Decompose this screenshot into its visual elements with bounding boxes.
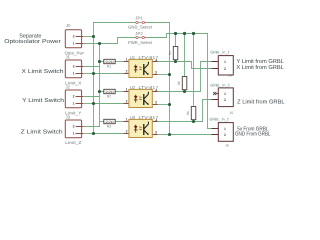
node rail B / J0 pin1 JP2 branch bbox=[98, 42, 101, 45]
LED D of U3 bbox=[135, 125, 137, 133]
jumper JP1 GND_Select bbox=[128, 16, 153, 30]
node Y out / R5 bbox=[183, 90, 186, 93]
svg-text:2: 2 bbox=[126, 100, 128, 104]
wire JP1 pad bridge bbox=[136, 22, 145, 24]
wire R3 to U3 pin1 bbox=[115, 121, 123, 123]
wire U2 pin2 row bbox=[94, 103, 124, 105]
wire Z output U3 pin4 riser to GRBL_In_3 pin2 bbox=[158, 100, 212, 122]
node rail A / J2 pin1 bbox=[92, 102, 95, 105]
svg-text:1: 1 bbox=[73, 102, 75, 106]
svg-text:GRBL_In_3: GRBL_In_3 bbox=[210, 82, 229, 87]
node 5v bus / R4 drop bbox=[174, 32, 177, 35]
resistor R3 220 bbox=[104, 119, 115, 128]
svg-text:220: 220 bbox=[105, 90, 114, 94]
svg-text:X Limit Switch: X Limit Switch bbox=[22, 68, 64, 75]
svg-text:J1: J1 bbox=[66, 54, 71, 59]
resistor R4 pullup bbox=[168, 47, 178, 60]
svg-text:R3: R3 bbox=[107, 124, 112, 128]
wire U3 pin3 to GND rail bbox=[158, 134, 170, 136]
svg-text:GRBL_In_1: GRBL_In_1 bbox=[210, 49, 229, 54]
svg-text:2: 2 bbox=[73, 95, 75, 99]
junction dots bbox=[92, 32, 195, 136]
node X out / R4 bbox=[174, 60, 177, 63]
connector J1 Limit_X bbox=[65, 54, 83, 85]
node Z out / R6 bbox=[192, 120, 195, 123]
wire rail A separate-GND vertical bbox=[93, 23, 95, 134]
svg-text:J6: J6 bbox=[225, 144, 229, 148]
svg-text:Limit_Z: Limit_Z bbox=[65, 140, 82, 145]
wire 5v bus down to GRBL_In_2 pin1 bbox=[208, 34, 212, 129]
svg-text:R5: R5 bbox=[177, 81, 181, 85]
wire U3 pin2 row bbox=[94, 133, 124, 135]
node GND rail / U2 pin3 bbox=[168, 103, 171, 106]
svg-text:2: 2 bbox=[73, 125, 75, 129]
svg-text:1: 1 bbox=[73, 42, 75, 46]
optocoupler U2 LTV-817 bbox=[124, 85, 160, 108]
wire 5v bus horizontal bbox=[167, 33, 208, 35]
svg-text:J2: J2 bbox=[66, 84, 71, 89]
connector GRBL_In_2 bbox=[210, 116, 234, 147]
pins 2,1 of J3 bbox=[76, 127, 84, 134]
resistor R2 220 bbox=[104, 89, 115, 98]
wire U2 pin3 to GND rail bbox=[158, 104, 170, 106]
wire GND rail to GRBL_In_2 pin2 bbox=[170, 134, 212, 136]
wire J2 pin2 bbox=[83, 96, 100, 98]
svg-text:3: 3 bbox=[155, 130, 157, 134]
wire JP1 right to GRBL-GND rail bbox=[145, 23, 170, 135]
pins 2,1 of J1 bbox=[76, 67, 84, 74]
phototransistor of U1 bbox=[143, 64, 145, 75]
wire R5 bottom lead bbox=[184, 90, 186, 92]
wire J2 pin1 bbox=[83, 103, 94, 105]
wire rail B separate-V+ vertical bbox=[99, 44, 101, 127]
svg-text:1: 1 bbox=[73, 132, 75, 136]
svg-text:Y Limit Switch: Y Limit Switch bbox=[22, 97, 64, 104]
svg-text:PWR_Select: PWR_Select bbox=[128, 40, 153, 45]
optocoupler U3 LTV-817 bbox=[124, 115, 160, 138]
svg-text:R4: R4 bbox=[168, 51, 172, 55]
svg-text:220: 220 bbox=[105, 60, 114, 64]
optocoupler U1 LTV-817 bbox=[124, 55, 160, 78]
wire J1 pin1 bbox=[83, 73, 94, 75]
pins 1,2 of GRBL_In_2 bbox=[212, 129, 219, 135]
wire R1 to U1 pin1 bbox=[115, 61, 123, 63]
svg-text:3: 3 bbox=[155, 100, 157, 104]
svg-text:GND_Select: GND_Select bbox=[128, 25, 153, 30]
svg-text:1: 1 bbox=[224, 60, 226, 64]
node rail A / J1 pin1 bbox=[92, 72, 95, 75]
wire R4 bottom lead bbox=[175, 60, 177, 62]
svg-text:Z Limit from GRBL: Z Limit from GRBL bbox=[237, 99, 285, 106]
node rail B / R1 bbox=[98, 60, 101, 63]
connector J3 Limit_Z bbox=[65, 114, 83, 145]
node GND rail / U3 pin3 bbox=[168, 133, 171, 136]
svg-text:2: 2 bbox=[73, 35, 75, 39]
resistor R5 pullup bbox=[177, 77, 187, 90]
svg-text:4: 4 bbox=[155, 59, 157, 63]
svg-text:J0: J0 bbox=[66, 23, 71, 28]
svg-text:2: 2 bbox=[126, 130, 128, 134]
svg-text:GND From GRBL: GND From GRBL bbox=[235, 132, 271, 138]
pins 2,1 of J0 bbox=[76, 37, 84, 44]
svg-text:JP2: JP2 bbox=[135, 31, 143, 36]
svg-text:J4: J4 bbox=[228, 73, 232, 77]
connector GRBL_In_1 bbox=[210, 49, 233, 77]
light arrows of U2 bbox=[139, 97, 141, 100]
resistor R6 pullup bbox=[186, 107, 196, 120]
pins 1,2,4,3 of U2 bbox=[124, 92, 158, 105]
resistor R1 220 bbox=[104, 59, 115, 68]
svg-text:1: 1 bbox=[126, 88, 128, 92]
wire Y output U2 pin4 riser to GRBL_In_1 pin1 bbox=[158, 62, 212, 92]
wire J1 pin2 bbox=[83, 66, 100, 68]
pins 1,2,4,3 of U3 bbox=[124, 122, 158, 135]
svg-text:JP1: JP1 bbox=[135, 16, 143, 21]
wire 5v drop to R4 bbox=[175, 34, 177, 47]
connector J2 Limit_Y bbox=[65, 84, 83, 115]
svg-text:GRBL_In_2: GRBL_In_2 bbox=[210, 116, 229, 121]
wire J3 pin1 bbox=[83, 133, 94, 135]
LED D of U2 bbox=[135, 95, 137, 103]
node rail B / R2 bbox=[98, 90, 101, 93]
wire R6 bottom lead bbox=[193, 120, 195, 122]
svg-text:1: 1 bbox=[126, 58, 128, 62]
light arrows of U3 bbox=[139, 127, 141, 130]
svg-text:Z Limit Switch: Z Limit Switch bbox=[21, 128, 63, 135]
svg-text:2: 2 bbox=[224, 98, 226, 102]
wire JP2 to 5v bus corner bbox=[145, 34, 167, 38]
svg-text:J3: J3 bbox=[66, 114, 71, 119]
svg-text:2: 2 bbox=[73, 65, 75, 69]
LED D of U1 bbox=[135, 65, 137, 73]
svg-text:220: 220 bbox=[105, 120, 114, 124]
wire J0 pin2 bbox=[83, 36, 94, 38]
node GND rail / U1 pin3 bbox=[168, 73, 171, 76]
wire JP1 left segment bbox=[94, 22, 136, 24]
svg-text:1: 1 bbox=[73, 72, 75, 76]
jumper JP2 PWR_Select bbox=[128, 31, 153, 45]
node 5v bus / R5 drop bbox=[183, 32, 186, 35]
wire JP2 pad bridge bbox=[136, 37, 145, 39]
wire 5v drop to R6 bbox=[193, 34, 195, 107]
svg-text:3: 3 bbox=[155, 70, 157, 74]
node rail A / J3 pin1 bbox=[92, 132, 95, 135]
svg-text:Optoisolator Power: Optoisolator Power bbox=[4, 38, 61, 45]
svg-text:2: 2 bbox=[224, 133, 226, 137]
svg-text:U2: U2 bbox=[130, 85, 136, 90]
wire X output U1 pin4 jog to GRBL_In_1 pin2 bbox=[158, 62, 212, 69]
svg-text:U1: U1 bbox=[130, 55, 136, 60]
pins 2,1 of J2 bbox=[76, 97, 84, 104]
svg-text:R6: R6 bbox=[186, 111, 190, 115]
connector J0 Opto_Pwr bbox=[65, 23, 85, 56]
phototransistor of U2 bbox=[143, 94, 145, 105]
pins 1,2 of GRBL_In_3 bbox=[212, 94, 219, 100]
wire R2 tap bbox=[100, 91, 104, 93]
svg-text:2: 2 bbox=[126, 70, 128, 74]
svg-text:1: 1 bbox=[126, 118, 128, 122]
node rail A / J0 pin2 bbox=[92, 35, 95, 38]
svg-text:R2: R2 bbox=[107, 94, 112, 98]
svg-text:2: 2 bbox=[224, 67, 226, 71]
wire U1 pin2 row bbox=[94, 73, 124, 75]
wire J3 pin2 bbox=[83, 126, 100, 128]
node 5v bus / R6 drop bbox=[192, 32, 195, 35]
light arrows of U1 bbox=[139, 67, 141, 70]
wire R2 to U2 pin1 bbox=[115, 91, 123, 93]
svg-text:1: 1 bbox=[224, 92, 226, 96]
wire R1 tap bbox=[100, 61, 104, 63]
pins 1,2 of GRBL_In_1 bbox=[212, 62, 219, 69]
wire 5v drop to R5 bbox=[184, 34, 186, 77]
pins 1,2,4,3 of U1 bbox=[124, 62, 158, 75]
svg-text:J5: J5 bbox=[230, 111, 234, 115]
connector GRBL_In_3 bbox=[210, 82, 233, 115]
wire R3 tap bbox=[100, 121, 104, 123]
svg-text:R1: R1 bbox=[107, 64, 112, 68]
phototransistor of U3 bbox=[143, 124, 145, 135]
svg-text:4: 4 bbox=[155, 119, 157, 123]
wire J0 pin1 to JP2 jog bbox=[83, 38, 136, 44]
svg-text:4: 4 bbox=[155, 89, 157, 93]
svg-text:X Limit from GRBL: X Limit from GRBL bbox=[236, 64, 284, 71]
no-connect cross on pin 1 of GRBL_In_3 bbox=[213, 92, 216, 95]
wire U1 pin3 to GND rail bbox=[158, 74, 170, 76]
svg-text:1: 1 bbox=[224, 127, 226, 131]
svg-text:U3: U3 bbox=[130, 115, 136, 120]
